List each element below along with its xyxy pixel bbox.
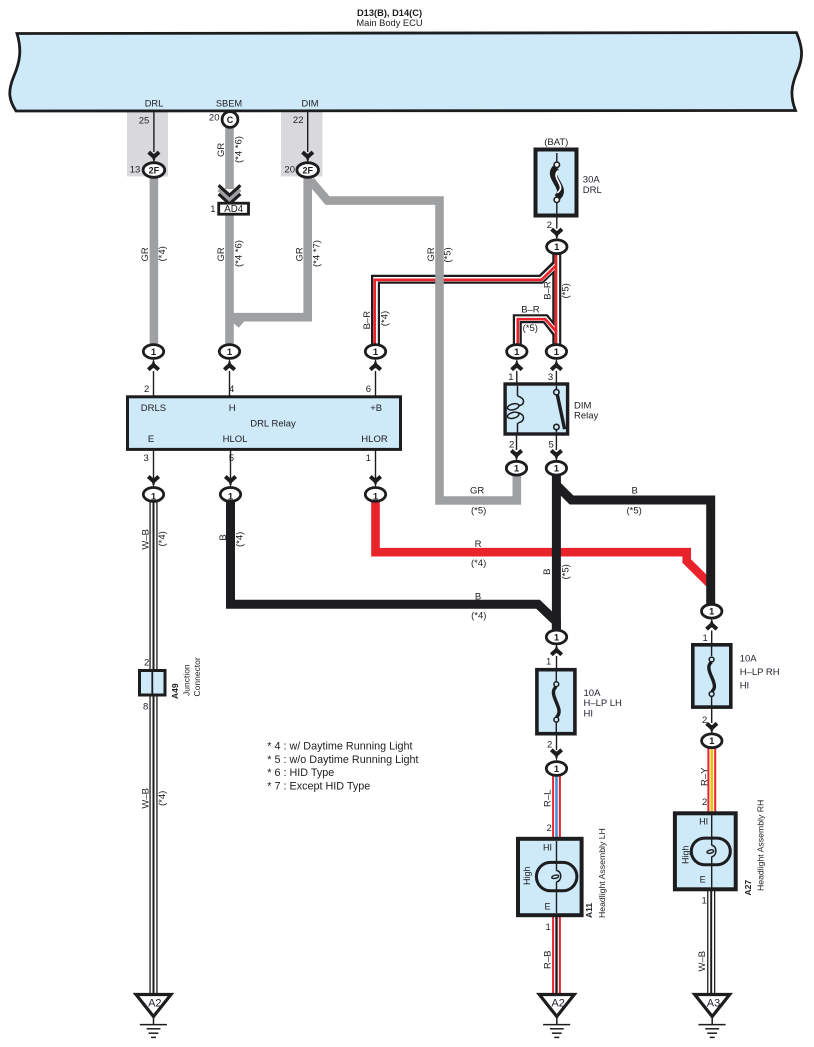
wire GR (*4) DRL column [154, 126, 517, 501]
svg-text:20: 20 [209, 113, 220, 124]
svg-text:B: B [542, 569, 553, 575]
wire B (*5) DIM relay pin 5 down to LH fuse [552, 474, 561, 631]
svg-text:4: 4 [229, 384, 234, 395]
svg-text:Relay: Relay [574, 411, 599, 422]
DIM relay switch [555, 386, 557, 390]
svg-text:(*5): (*5) [523, 323, 538, 334]
svg-text:C: C [227, 115, 234, 125]
connector ovals [143, 112, 722, 776]
svg-text:HLOR: HLOR [361, 434, 388, 445]
svg-text:1: 1 [546, 922, 551, 933]
arrow into oval above DRL relay pin 4 [224, 365, 234, 370]
DIM Relay box [505, 384, 567, 434]
DIM relay pin numbers [508, 372, 553, 450]
wire B (*4) HLOL to LH fuse [231, 500, 557, 631]
svg-text:W–B: W–B [141, 788, 152, 809]
Main Body ECU banner [10, 33, 802, 111]
svg-text:(*4): (*4) [471, 558, 486, 569]
svg-text:DRL: DRL [145, 98, 164, 108]
svg-text:HI: HI [584, 709, 594, 720]
svg-text:(*4): (*4) [157, 531, 168, 546]
svg-text:DRLS: DRLS [141, 403, 166, 414]
svg-text:GR: GR [426, 247, 437, 261]
svg-text:13: 13 [130, 164, 141, 175]
svg-text:(*4): (*4) [157, 246, 168, 261]
bulb LH high beam [536, 862, 577, 890]
arrow into oval above DRL relay pin 2 [148, 365, 158, 370]
wire B-R white sliver layer [376, 252, 557, 346]
junction connector A49 [140, 671, 166, 696]
svg-text:(*5): (*5) [627, 506, 642, 517]
svg-text:B: B [475, 591, 481, 602]
arrow into LH fuse bottom oval [551, 750, 561, 755]
wire B (*5) branch to RH fuse [556, 485, 710, 605]
connector shading D14 pin 22 [281, 112, 323, 177]
svg-text:1: 1 [151, 347, 157, 358]
svg-text:(*5): (*5) [560, 283, 571, 298]
arrow into 2F (DIM) [303, 152, 313, 157]
thin pin lines [154, 112, 712, 750]
wire R-L LH fuse to headlight LH [552, 774, 561, 839]
svg-text:A2: A2 [551, 997, 564, 1009]
svg-text:D13(B), D14(C): D13(B), D14(C) [357, 8, 422, 18]
svg-text:2: 2 [547, 220, 552, 231]
arrow into oval below DRL relay pin 1 [370, 477, 380, 482]
arrow into oval below DRL relay pin 3 [148, 477, 158, 482]
wire GR (*4 *6) SBEM column lower [225, 213, 234, 346]
svg-text:* 7 : Except HID Type: * 7 : Except HID Type [267, 780, 370, 792]
svg-text:2: 2 [702, 715, 707, 726]
headlight assembly RH box [675, 813, 736, 889]
svg-text:Headlight Assembly LH: Headlight Assembly LH [597, 828, 607, 918]
svg-text:2: 2 [547, 823, 552, 834]
svg-text:(*4 *6): (*4 *6) [233, 240, 244, 267]
svg-text:2F: 2F [302, 165, 313, 175]
svg-text:(BAT): (BAT) [544, 137, 568, 148]
ground A2 (center) [539, 995, 574, 1038]
svg-text:* 4 : w/ Daytime Running Light: * 4 : w/ Daytime Running Light [267, 740, 412, 752]
svg-text:1: 1 [514, 464, 520, 475]
svg-text:E: E [148, 434, 154, 445]
svg-text:1: 1 [210, 204, 215, 215]
svg-text:High: High [681, 845, 691, 864]
svg-text:3: 3 [144, 453, 149, 464]
svg-text:(*5): (*5) [471, 506, 486, 517]
svg-text:Connector: Connector [192, 657, 202, 696]
svg-text:2: 2 [702, 797, 707, 808]
svg-text:8: 8 [143, 702, 148, 713]
svg-text:1: 1 [228, 492, 234, 503]
svg-text:2: 2 [144, 657, 149, 668]
svg-text:Headlight Assembly RH: Headlight Assembly RH [756, 800, 766, 891]
svg-text:B: B [218, 534, 229, 540]
svg-text:SBEM: SBEM [216, 98, 242, 108]
wire R-Y RH fuse to headlight RH [707, 747, 716, 812]
svg-text:(*4 *6): (*4 *6) [233, 136, 244, 163]
svg-text:H–LP RH: H–LP RH [740, 667, 780, 678]
svg-text:High: High [522, 866, 532, 885]
svg-text:Junction: Junction [182, 664, 192, 696]
svg-text:5: 5 [229, 453, 234, 464]
svg-text:GR: GR [216, 247, 227, 261]
svg-text:R–Y: R–Y [700, 767, 711, 786]
arrow into LH fuse top oval [551, 650, 561, 655]
svg-text:20: 20 [284, 164, 295, 175]
arrow into oval above DIM relay pin 1 [512, 365, 522, 370]
svg-text:DRL: DRL [583, 185, 602, 196]
arrow into RH fuse top oval [707, 624, 717, 629]
svg-text:HI: HI [543, 842, 552, 852]
headlight assembly LH box [518, 839, 582, 915]
svg-text:2: 2 [547, 740, 552, 751]
chevron pass-through on SBEM wire [219, 189, 239, 198]
ground A2 (left) [136, 995, 171, 1038]
svg-text:E: E [544, 902, 550, 912]
svg-text:W–B: W–B [141, 529, 152, 550]
fuse 10A H-LP RH HI [693, 645, 731, 707]
svg-text:HI: HI [740, 680, 750, 691]
wire junction chamfer at SBEM/DIM merge [236, 316, 244, 326]
svg-text:A11: A11 [584, 903, 594, 918]
connector shading D13 pin 25 [127, 112, 168, 177]
svg-text:1: 1 [554, 242, 560, 253]
connector AD4 [219, 203, 249, 214]
svg-text:(*4): (*4) [471, 611, 486, 622]
svg-text:GR: GR [216, 143, 227, 157]
bulb RH high beam [691, 838, 730, 865]
svg-text:1: 1 [366, 453, 371, 464]
svg-text:A2: A2 [148, 997, 161, 1009]
svg-text:1: 1 [508, 372, 513, 383]
fuse 30A DRL [536, 150, 577, 216]
svg-text:(*4 *7): (*4 *7) [312, 240, 323, 267]
svg-text:2F: 2F [149, 165, 160, 175]
wire R-B headlight LH to ground A2 [552, 916, 561, 994]
svg-text:(*4): (*4) [157, 791, 168, 806]
svg-text:1: 1 [709, 607, 715, 618]
svg-text:HLOL: HLOL [223, 434, 248, 445]
svg-text:3: 3 [548, 372, 553, 383]
svg-text:2: 2 [144, 384, 149, 395]
svg-text:1: 1 [709, 736, 715, 747]
svg-text:+B: +B [370, 403, 382, 414]
svg-text:W–B: W–B [697, 951, 708, 972]
svg-text:22: 22 [293, 115, 304, 126]
svg-text:5: 5 [549, 439, 554, 450]
arrow into oval below DRL relay pin 5 [225, 477, 235, 482]
wire R (*4) HLOR to RH high-beam fuse [376, 500, 711, 585]
wire W-B (*4) E column to ground A2 [149, 500, 157, 994]
svg-text:10A: 10A [740, 654, 758, 665]
svg-text:1: 1 [554, 347, 560, 358]
svg-text:1: 1 [227, 347, 233, 358]
arrow into oval below DIM relay pin 2 [511, 451, 521, 456]
svg-text:R–B: R–B [543, 951, 554, 969]
svg-text:R: R [475, 539, 482, 550]
svg-text:B–R: B–R [362, 311, 373, 330]
svg-text:25: 25 [139, 115, 150, 126]
svg-text:1: 1 [702, 896, 707, 907]
svg-text:DRL Relay: DRL Relay [250, 418, 296, 429]
svg-text:(*5): (*5) [560, 564, 571, 579]
svg-text:B–R: B–R [542, 281, 553, 300]
arrow into oval above DRL relay pin 6 [370, 365, 380, 370]
DRL relay pin numbers [144, 384, 371, 464]
DRL Relay box [128, 397, 401, 450]
wire B-R red stripe layer [375, 252, 557, 346]
svg-text:1: 1 [373, 347, 379, 358]
arrow into 2F (DRL) [149, 152, 159, 157]
connector arrows [148, 152, 717, 761]
svg-text:B–R: B–R [521, 305, 540, 316]
svg-text:R–L: R–L [543, 790, 554, 807]
wire GR (*4 *7) DIM column, merge to SBEM [230, 176, 308, 317]
svg-text:1: 1 [554, 464, 560, 475]
svg-text:1: 1 [554, 764, 560, 775]
arrow into oval below DIM relay pin 5 [551, 451, 561, 456]
svg-text:6: 6 [366, 384, 371, 395]
svg-text:* 6 : HID Type: * 6 : HID Type [267, 767, 334, 779]
svg-text:1: 1 [151, 492, 157, 503]
fuse 10A H-LP LH HI [537, 670, 575, 734]
wire GR (*5) DIM to DIM relay pin 2 [311, 181, 517, 501]
svg-text:E: E [700, 874, 706, 884]
svg-text:GR: GR [470, 486, 484, 497]
arrow into oval below 30A fuse [552, 229, 562, 234]
svg-text:1: 1 [546, 657, 551, 668]
arrow into oval above DIM relay pin 3 [551, 365, 561, 370]
svg-text:(*4): (*4) [234, 532, 245, 547]
svg-text:HI: HI [699, 817, 708, 827]
wire B-R (*5) fuse to DIM relay pin 3, black base [376, 252, 557, 346]
svg-text:(*5): (*5) [443, 247, 454, 262]
svg-text:A49: A49 [170, 683, 180, 699]
DIM relay coil [507, 386, 524, 433]
ground A3 (right) [695, 995, 730, 1038]
svg-text:AD4: AD4 [224, 204, 243, 215]
svg-text:H: H [229, 403, 236, 414]
wire W-B headlight RH to ground A3 [707, 890, 715, 994]
svg-text:(*4): (*4) [379, 311, 390, 326]
svg-text:DIM: DIM [301, 98, 318, 108]
svg-text:GR: GR [294, 247, 305, 261]
svg-text:A3: A3 [707, 997, 720, 1009]
wire GR (*4 *6) SBEM column upper [225, 126, 234, 189]
svg-text:A27: A27 [743, 880, 753, 896]
svg-text:1: 1 [554, 632, 560, 643]
svg-text:B: B [632, 486, 638, 497]
arrow into RH fuse bottom oval [707, 723, 717, 728]
svg-text:Main Body ECU: Main Body ECU [356, 18, 422, 28]
svg-text:1: 1 [703, 633, 708, 644]
svg-text:1: 1 [514, 347, 520, 358]
svg-text:GR: GR [140, 247, 151, 261]
svg-text:* 5 : w/o Daytime Running Ligh: * 5 : w/o Daytime Running Light [267, 754, 418, 766]
svg-text:2: 2 [509, 439, 514, 450]
svg-text:1: 1 [373, 492, 379, 503]
